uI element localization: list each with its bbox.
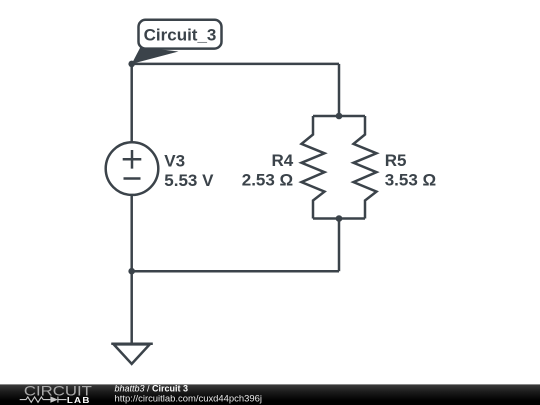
wire left vertical lower [130,195,133,271]
svg-text:http://circuitlab.com/cuxd44pc: http://circuitlab.com/cuxd44pch396j [115,394,263,404]
callout tail [132,47,179,64]
wire parallel bracket bottom [313,217,365,220]
wire bottom horizontal [132,270,339,273]
footer bar [0,384,540,405]
wire top horizontal [132,63,339,66]
wire right vertical lower [338,219,341,272]
wire ground stem [130,271,133,344]
svg-text:R5: R5 [385,151,407,170]
V3 minus sign [124,177,141,180]
svg-text:LAB: LAB [67,396,91,405]
voltage source V3 circle [106,142,159,195]
svg-text:bhattb3 / Circuit 3: bhattb3 / Circuit 3 [115,384,189,394]
wire parallel bracket top [313,115,365,118]
node dot top-left [128,61,135,68]
logo resistor-diode line [20,397,67,403]
callout box Circuit_3 [139,20,222,49]
node dot bottom-left junction [128,268,135,275]
svg-text:3.53 Ω: 3.53 Ω [385,171,436,190]
node dot parallel top [336,113,343,120]
svg-text:2.53 Ω: 2.53 Ω [242,171,293,190]
resistor R5 body [354,116,377,219]
resistor R4 body [302,116,325,219]
svg-text:5.53 V: 5.53 V [164,171,214,190]
V3 plus sign [123,150,142,169]
svg-text:R4: R4 [271,151,293,170]
ground symbol [111,344,153,364]
node dot parallel bottom [336,215,343,222]
logo diode triangle [50,396,58,402]
svg-text:V3: V3 [164,151,185,170]
wire left vertical upper [130,64,133,142]
svg-text:Circuit_3: Circuit_3 [144,25,217,44]
wire right vertical upper [338,64,341,116]
